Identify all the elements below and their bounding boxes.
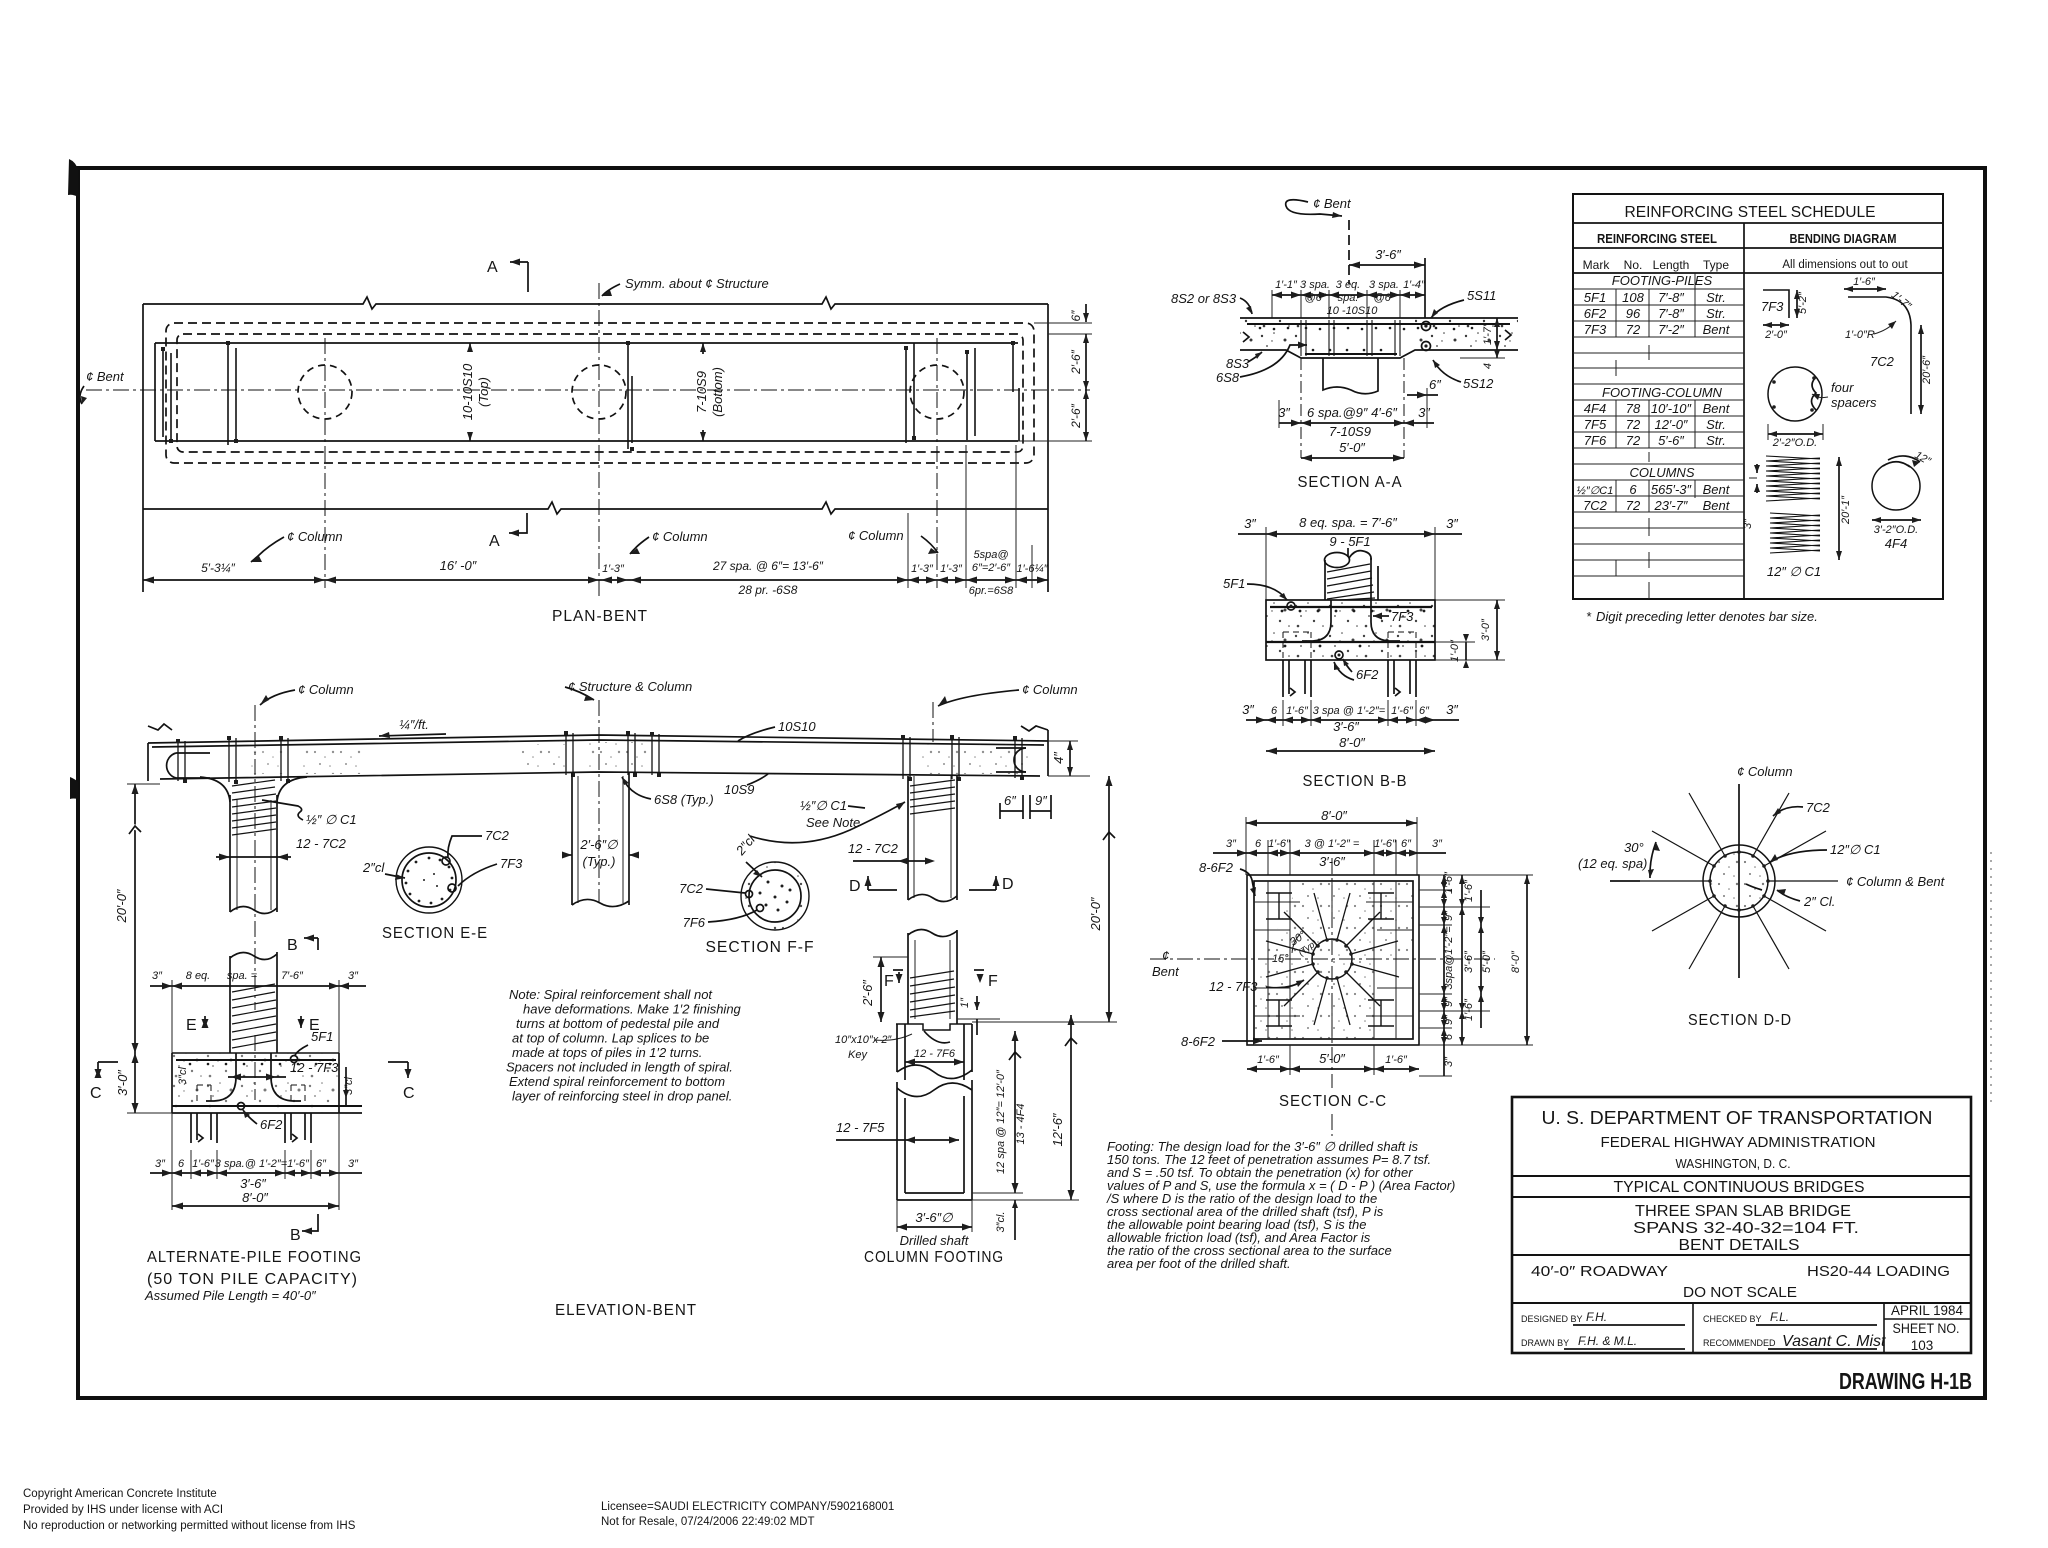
svg-text:3″: 3″	[155, 1158, 166, 1170]
bottom dims	[1289, 1045, 1291, 1075]
svg-text:¢: ¢	[1162, 948, 1169, 963]
svg-text:3″: 3″	[1418, 405, 1430, 420]
svg-text:10-10S10: 10-10S10	[460, 363, 475, 420]
svg-text:SECTION A-A: SECTION A-A	[1298, 474, 1403, 491]
squares	[1247, 875, 1419, 1045]
svg-text:3′-2″O.D.: 3′-2″O.D.	[1874, 524, 1918, 536]
svg-text:3″cl.: 3″cl.	[995, 1211, 1007, 1232]
top dim 8 eq spa	[150, 985, 366, 987]
svg-text:1′-6″: 1′-6″	[287, 1158, 310, 1170]
svg-text:7C2: 7C2	[485, 828, 510, 843]
right-end dimension stack 6" / 2'-6" / 2'-6"	[1034, 322, 1092, 324]
SECTION B-B	[1223, 515, 1505, 790]
title block	[1512, 1097, 1971, 1353]
svg-text:3″: 3″	[1226, 838, 1237, 850]
svg-text:6F2: 6F2	[1584, 306, 1607, 321]
svg-text:¢ Structure & Column: ¢ Structure & Column	[568, 679, 692, 694]
svg-text:3 spa.@ 1′-2″=: 3 spa.@ 1′-2″=	[215, 1158, 288, 1170]
right end	[1021, 726, 1048, 731]
svg-text:3 spa.: 3 spa.	[1369, 279, 1399, 291]
svg-text:¢ Bent: ¢ Bent	[1313, 196, 1352, 211]
svg-text:6: 6	[178, 1158, 185, 1170]
svg-text:(Top): (Top)	[476, 377, 491, 407]
svg-text:layer of reinforcing steel in: layer of reinforcing steel in drop panel…	[512, 1089, 732, 1104]
svg-text:½″ ∅ C1: ½″ ∅ C1	[306, 812, 357, 827]
right rotated dims	[1014, 1031, 1016, 1193]
sheet border frame	[68, 159, 1985, 1398]
svg-text:7C2: 7C2	[1806, 800, 1831, 815]
svg-text:9″: 9″	[1443, 996, 1455, 1007]
svg-text:1′-7″: 1′-7″	[1482, 322, 1494, 345]
svg-text:9″: 9″	[1035, 793, 1047, 808]
double dashed drop-panel outline	[166, 323, 1034, 463]
7F3 funnels	[206, 1053, 236, 1101]
svg-text:8′-0″: 8′-0″	[1321, 808, 1347, 823]
svg-text:1′-0″R: 1′-0″R	[1845, 329, 1875, 341]
svg-text:3′-0″: 3′-0″	[1480, 618, 1492, 641]
svg-text:at top of column. Lap splices: at top of column. Lap splices to be	[512, 1031, 709, 1046]
svg-text:Bent: Bent	[1152, 964, 1180, 979]
svg-text:3 spa.: 3 spa.	[1300, 279, 1330, 291]
centerlines	[1150, 958, 1495, 960]
B mark lower	[302, 1214, 318, 1231]
svg-text:3″: 3″	[1432, 838, 1443, 850]
svg-text:6S8: 6S8	[1216, 370, 1240, 385]
bottom dims	[1279, 422, 1434, 424]
svg-text:D: D	[1002, 876, 1015, 893]
svg-text:12′-0″: 12′-0″	[1654, 417, 1687, 432]
svg-text:2′-6″: 2′-6″	[1069, 349, 1083, 375]
svg-text:6: 6	[1255, 838, 1262, 850]
svg-text:3″: 3″	[152, 970, 163, 982]
right rotated dims	[1435, 599, 1505, 601]
svg-text:CHECKED BY: CHECKED BY	[1703, 1314, 1762, 1324]
svg-text:3 eq.: 3 eq.	[1336, 279, 1360, 291]
stipple patches in beam	[300, 748, 364, 774]
svg-text:½″∅C1: ½″∅C1	[1577, 485, 1614, 497]
svg-text:6″: 6″	[1419, 705, 1430, 717]
bending diagram: spiral coils	[1766, 456, 1820, 553]
SECTION F-F	[741, 862, 809, 930]
3'-0" left dim	[134, 1053, 136, 1113]
svg-text:7C2: 7C2	[1870, 354, 1895, 369]
svg-text:6F2: 6F2	[1356, 667, 1379, 682]
table data	[1577, 273, 1731, 513]
svg-text:Bent: Bent	[1703, 482, 1731, 497]
svg-text:20′-0″: 20′-0″	[114, 889, 129, 923]
svg-text:7F6: 7F6	[683, 915, 706, 930]
svg-text:(50 TON PILE CAPACITY): (50 TON PILE CAPACITY)	[147, 1271, 358, 1288]
SECTION E-E	[396, 847, 462, 913]
svg-text:F.L.: F.L.	[1770, 1310, 1789, 1324]
svg-text:4F4: 4F4	[1584, 401, 1606, 416]
centreline of bent	[86, 389, 1090, 391]
svg-text:Type: Type	[1703, 258, 1729, 272]
20'-0" left	[134, 784, 136, 1053]
svg-text:¢ Column: ¢ Column	[1022, 682, 1078, 697]
svg-text:1′-3″: 1′-3″	[602, 563, 625, 575]
svg-text:108: 108	[1622, 290, 1644, 305]
bottom dims	[150, 1172, 362, 1174]
column 3	[907, 776, 909, 900]
svg-text:5′-6″: 5′-6″	[1658, 433, 1684, 448]
svg-text:Str.: Str.	[1706, 433, 1726, 448]
svg-text:6″=2′-6″: 6″=2′-6″	[972, 562, 1011, 574]
pile dashed tops and piles	[1283, 632, 1416, 660]
svg-text:72: 72	[1626, 433, 1641, 448]
svg-text:1′-6″: 1′-6″	[1374, 838, 1397, 850]
svg-text:APRIL 1984: APRIL 1984	[1891, 1303, 1963, 1318]
svg-text:B: B	[290, 1227, 302, 1244]
svg-text:8′-0″: 8′-0″	[242, 1190, 268, 1205]
svg-text:1′-6″: 1′-6″	[1443, 871, 1455, 894]
svg-text:1′-6″: 1′-6″	[192, 1158, 215, 1170]
3'-6" dia	[896, 1200, 898, 1232]
svg-text:SECTION F-F: SECTION F-F	[706, 939, 815, 956]
svg-text:spa. =: spa. =	[227, 970, 258, 982]
Footing paragraph	[1106, 1139, 1455, 1271]
svg-text:10 -10S10: 10 -10S10	[1327, 305, 1379, 317]
svg-text:6: 6	[1443, 1033, 1455, 1040]
svg-text:COLUMNS: COLUMNS	[1629, 465, 1694, 480]
svg-text:FOOTING-COLUMN: FOOTING-COLUMN	[1602, 385, 1722, 400]
svg-text:Drilled shaft: Drilled shaft	[900, 1233, 970, 1248]
svg-text:PLAN-BENT: PLAN-BENT	[552, 608, 648, 625]
svg-text:9″: 9″	[1443, 1014, 1455, 1025]
svg-text:12 - 7F6: 12 - 7F6	[914, 1048, 956, 1060]
svg-text:2′-6″∅: 2′-6″∅	[579, 837, 618, 852]
svg-text:(Typ.): (Typ.)	[583, 854, 616, 869]
2'-6" dim	[880, 957, 882, 1022]
svg-text:U. S. DEPARTMENT OF TRANSPO: U. S. DEPARTMENT OF TRANSPORTATION	[1542, 1108, 1933, 1128]
svg-text:(Bottom): (Bottom)	[710, 367, 725, 417]
svg-text:565′-3″: 565′-3″	[1651, 482, 1692, 497]
svg-text:9″: 9″	[1443, 910, 1455, 921]
svg-text:2′-0″: 2′-0″	[1764, 329, 1788, 341]
svg-text:96: 96	[1626, 306, 1641, 321]
svg-text:1′-6″: 1′-6″	[1268, 838, 1291, 850]
svg-text:F: F	[884, 973, 895, 990]
svg-text:4″: 4″	[1051, 752, 1066, 764]
svg-text:HS20-44 LOADING: HS20-44 LOADING	[1807, 1263, 1950, 1280]
svg-text:7F3: 7F3	[1391, 609, 1414, 624]
svg-text:6″: 6″	[1429, 377, 1441, 392]
svg-text:3″: 3″	[348, 1158, 359, 1170]
svg-text:8-6F2: 8-6F2	[1181, 1034, 1216, 1049]
svg-text:Mark: Mark	[1583, 258, 1611, 272]
svg-text:27 spa. @ 6″= 13′-6″: 27 spa. @ 6″= 13′-6″	[712, 559, 824, 573]
stirrup ticks across beam	[178, 733, 1022, 782]
bending diagram: spacer circle	[1768, 367, 1822, 421]
svg-text:9 - 5F1: 9 - 5F1	[1329, 534, 1370, 549]
svg-text:3″: 3″	[1242, 702, 1254, 717]
svg-text:5F1: 5F1	[311, 1029, 333, 1044]
svg-text:7′-8″: 7′-8″	[1658, 290, 1684, 305]
svg-text:5′-0″: 5′-0″	[1339, 440, 1365, 455]
svg-text:3′-6″: 3′-6″	[1375, 247, 1401, 262]
svg-text:7F6: 7F6	[1584, 433, 1607, 448]
svg-text:16′ -0″: 16′ -0″	[440, 558, 477, 573]
svg-text:12′-6″: 12′-6″	[1050, 1113, 1065, 1146]
right rotated dims	[1496, 318, 1498, 350]
svg-text:SPANS 32-40-32=104 FT.: SPANS 32-40-32=104 FT.	[1633, 1220, 1859, 1237]
H piles	[1266, 893, 1394, 1026]
dashed extension lines below drop panel	[1300, 358, 1302, 458]
svg-text:3 spa @ 1′-2″=: 3 spa @ 1′-2″=	[1313, 705, 1386, 717]
svg-text:12 - 7F5: 12 - 7F5	[836, 1120, 885, 1135]
beam cap	[148, 735, 1048, 743]
svg-text:1′-6¼″: 1′-6¼″	[1016, 563, 1048, 575]
svg-text:REINFORCING STEEL: REINFORCING STEEL	[1597, 231, 1717, 246]
4" dim right end	[1069, 741, 1071, 776]
svg-text:2″ Cl.: 2″ Cl.	[1803, 894, 1835, 909]
svg-text:12 - 7F3: 12 - 7F3	[1209, 979, 1258, 994]
svg-text:area per foot of the dril: area per foot of the drilled shaft.	[1107, 1256, 1291, 1271]
svg-text:3″: 3″	[1446, 702, 1458, 717]
svg-text:See Note: See Note	[806, 815, 860, 830]
svg-text:20′-6″: 20′-6″	[1921, 355, 1933, 385]
svg-text:spacers: spacers	[1831, 395, 1877, 410]
svg-text:1′-6″: 1′-6″	[1391, 705, 1414, 717]
svg-text:6 spa.@9″ 4′-6″: 6 spa.@9″ 4′-6″	[1307, 405, 1397, 420]
svg-text:2′-2″O.D.: 2′-2″O.D.	[1772, 437, 1817, 449]
svg-text:¢ Column: ¢ Column	[298, 682, 354, 697]
svg-text:E: E	[186, 1017, 198, 1034]
svg-text:3″cl: 3″cl	[177, 1066, 189, 1085]
svg-text:5F1: 5F1	[1584, 290, 1606, 305]
svg-text:2′-6″: 2′-6″	[860, 980, 875, 1007]
svg-text:Digit preceding letter denot: Digit preceding letter denotes bar size.	[1596, 609, 1818, 624]
bottom dim rows	[1246, 719, 1459, 721]
break marks	[1243, 332, 1249, 342]
svg-text:5S11: 5S11	[1467, 288, 1496, 303]
svg-text:turns at bottom of pedestal pi: turns at bottom of pedestal pile and	[516, 1016, 720, 1031]
svg-text:30°: 30°	[1624, 840, 1644, 855]
svg-text:8′-0″: 8′-0″	[1339, 735, 1365, 750]
bending diagram: 7C2 hook bar	[1848, 297, 1911, 414]
svg-text:12″∅ C1: 12″∅ C1	[1830, 842, 1881, 857]
svg-text:3′-6″: 3′-6″	[1463, 950, 1475, 973]
svg-text:All dimensions out to out: All dimensions out to out	[1782, 259, 1908, 271]
PLAN-BENT view	[80, 259, 1092, 626]
svg-text:6pr.=6S8: 6pr.=6S8	[969, 585, 1014, 597]
7F3 funnels	[1302, 600, 1331, 641]
svg-text:No.: No.	[1624, 258, 1643, 272]
svg-text:7C2: 7C2	[679, 881, 704, 896]
right side dim stack	[1419, 875, 1533, 1076]
svg-text:6″: 6″	[1069, 310, 1083, 322]
column circles dashed	[298, 365, 352, 419]
svg-text:7F5: 7F5	[1584, 417, 1607, 432]
svg-text:3spa@1′-2″=: 3spa@1′-2″=	[1443, 926, 1455, 990]
svg-text:1′-6″: 1′-6″	[1463, 998, 1475, 1021]
svg-text:10S10: 10S10	[778, 719, 816, 734]
svg-text:1′-3″: 1′-3″	[940, 563, 963, 575]
partial column dividers	[1616, 273, 1695, 599]
svg-text:Key: Key	[848, 1049, 868, 1061]
svg-text:7′-8″: 7′-8″	[1658, 306, 1684, 321]
svg-text:@6″: @6″	[1304, 292, 1326, 304]
svg-text:2′-6″: 2′-6″	[1069, 403, 1083, 429]
svg-text:Licensee=SAUDI ELECTRICITY COM: Licensee=SAUDI ELECTRICITY COMPANY/59021…	[601, 1501, 894, 1513]
svg-text:Note: Spiral reinforcement sh: Note: Spiral reinforcement shall not	[509, 987, 713, 1002]
svg-text:BENDING DIAGRAM: BENDING DIAGRAM	[1790, 231, 1897, 246]
svg-text:4F4: 4F4	[1885, 536, 1907, 551]
svg-text:FOOTING-PILES: FOOTING-PILES	[1612, 273, 1713, 288]
svg-text:DESIGNED BY: DESIGNED BY	[1521, 1314, 1583, 1324]
svg-text:A: A	[487, 259, 499, 276]
svg-text:¢ Column: ¢ Column	[652, 529, 708, 544]
Note paragraph	[506, 987, 742, 1104]
upper bar-spacing dims	[1272, 294, 1425, 296]
svg-text:3′-6″: 3′-6″	[240, 1176, 266, 1191]
column 1	[200, 777, 230, 802]
svg-text:1′-6″: 1′-6″	[1385, 1054, 1408, 1066]
svg-text:6S8 (Typ.): 6S8 (Typ.)	[654, 792, 714, 807]
svg-text:SECTION E-E: SECTION E-E	[382, 925, 488, 942]
3"cl	[1014, 1200, 1016, 1240]
center circle and radiating bars	[1312, 939, 1352, 979]
svg-text:1′-6″: 1′-6″	[1257, 1054, 1280, 1066]
COLUMN FOOTING	[835, 929, 1079, 1266]
svg-text:23′-7″: 23′-7″	[1653, 498, 1687, 513]
svg-text:6″: 6″	[316, 1158, 327, 1170]
svg-text:Symm. about ¢ Structure: Symm. about ¢ Structure	[625, 276, 769, 291]
svg-text:Bent: Bent	[1703, 322, 1731, 337]
svg-text:8 eq. spa. = 7′-6″: 8 eq. spa. = 7′-6″	[1299, 515, 1397, 530]
svg-text:@6″: @6″	[1373, 292, 1395, 304]
svg-text:7′-6″: 7′-6″	[281, 970, 304, 982]
svg-text:20′-1″: 20′-1″	[1840, 495, 1852, 525]
svg-text:5′-2″: 5′-2″	[1797, 291, 1809, 314]
column below	[1323, 358, 1378, 394]
svg-text:Copyright American Concrete In: Copyright American Concrete Institute	[23, 1488, 217, 1500]
svg-text:7C2: 7C2	[1583, 498, 1608, 513]
footing body	[172, 1053, 339, 1113]
svg-text:1″: 1″	[959, 997, 971, 1008]
svg-text:¢ Column & Bent: ¢ Column & Bent	[1846, 874, 1946, 889]
bottom dimension line	[143, 579, 1048, 581]
svg-text:COLUMN FOOTING: COLUMN FOOTING	[864, 1249, 1004, 1266]
shaft upper segment	[896, 1024, 898, 1072]
svg-text:RECOMMENDED: RECOMMENDED	[1703, 1338, 1776, 1348]
ALTERNATE-PILE FOOTING	[90, 935, 416, 1304]
C marks	[98, 1061, 118, 1063]
svg-text:12 - 7F3: 12 - 7F3	[290, 1060, 339, 1075]
ELEVATION-BENT	[114, 679, 1117, 1319]
sub dims	[1213, 852, 1446, 854]
svg-text:7F3: 7F3	[1584, 322, 1607, 337]
svg-text:8 eq.: 8 eq.	[186, 970, 210, 982]
svg-text:Bent: Bent	[1703, 498, 1731, 513]
svg-text:Str.: Str.	[1706, 290, 1726, 305]
svg-text:Bent: Bent	[1703, 401, 1731, 416]
svg-text:1′-6″: 1′-6″	[1286, 705, 1309, 717]
svg-text:12 spa @ 12″= 12′-0″: 12 spa @ 12″= 12′-0″	[995, 1069, 1007, 1174]
footer small print	[23, 1488, 894, 1532]
svg-text:DRAWING H-1B: DRAWING H-1B	[1839, 1368, 1972, 1394]
svg-text:¢ Bent: ¢ Bent	[86, 369, 125, 384]
svg-text:1′-1″: 1′-1″	[1275, 279, 1298, 291]
svg-text:12 - 7C2: 12 - 7C2	[296, 836, 347, 851]
svg-text:20′-0″: 20′-0″	[1088, 897, 1103, 931]
svg-text:¢ Column: ¢ Column	[1737, 764, 1793, 779]
svg-text:1′-0″: 1′-0″	[1449, 639, 1461, 662]
shaft lower segment	[896, 1082, 898, 1200]
svg-text:8′-0″: 8′-0″	[1510, 950, 1522, 973]
svg-text:3″: 3″	[1443, 1056, 1455, 1067]
svg-text:(12 eq. spa): (12 eq. spa)	[1578, 856, 1647, 871]
svg-text:THREE SPAN SLAB BRIDGE: THREE SPAN SLAB BRIDGE	[1635, 1203, 1851, 1220]
slab band	[1240, 318, 1301, 350]
pedestal with spiral	[1347, 548, 1349, 557]
svg-text:7-10S9: 7-10S9	[1329, 424, 1371, 439]
svg-text:5′-3¼″: 5′-3¼″	[201, 561, 236, 575]
svg-text:7-10S9: 7-10S9	[694, 371, 709, 413]
svg-text:6: 6	[1271, 705, 1278, 717]
svg-text:WASHINGTON, D. C.: WASHINGTON, D. C.	[1676, 1157, 1791, 1171]
svg-text:3 @ 1′-2″ =: 3 @ 1′-2″ =	[1305, 838, 1360, 850]
svg-text:Extend spiral reinforcement to: Extend spiral reinforcement to bottom	[509, 1074, 725, 1089]
svg-text:1′-4″: 1′-4″	[1403, 279, 1426, 291]
svg-text:6″: 6″	[1004, 793, 1016, 808]
svg-text:DRAWN BY: DRAWN BY	[1521, 1338, 1569, 1348]
svg-text:5S12: 5S12	[1463, 376, 1494, 391]
svg-text:72: 72	[1626, 498, 1641, 513]
svg-text:BENT DETAILS: BENT DETAILS	[1679, 1237, 1800, 1254]
svg-text:5spa@: 5spa@	[973, 549, 1008, 561]
REINFORCING STEEL SCHEDULE table	[1573, 194, 1943, 624]
interior rebar grid	[1254, 881, 1413, 1039]
svg-text:ELEVATION-BENT: ELEVATION-BENT	[555, 1302, 697, 1319]
svg-text:Length: Length	[1653, 258, 1690, 272]
svg-text:12″ ∅ C1: 12″ ∅ C1	[1767, 564, 1821, 579]
svg-text:spa.: spa.	[1338, 292, 1359, 304]
svg-text:SHEET NO.: SHEET NO.	[1893, 1321, 1960, 1336]
column 2	[571, 772, 573, 905]
svg-text:6: 6	[1629, 482, 1637, 497]
svg-text:DO NOT SCALE: DO NOT SCALE	[1683, 1284, 1797, 1301]
svg-text:F.H.: F.H.	[1586, 1310, 1607, 1324]
SECTION A-A	[1171, 196, 1518, 491]
svg-text:3″: 3″	[1446, 516, 1458, 531]
svg-text:Spacers not included in length: Spacers not included in length of spiral…	[506, 1060, 733, 1075]
svg-text:Assumed Pile Length = 40′-0″: Assumed Pile Length = 40′-0″	[144, 1288, 316, 1303]
svg-text:½″∅ C1: ½″∅ C1	[800, 798, 847, 813]
svg-text:103: 103	[1911, 1338, 1934, 1353]
svg-text:have deformations. Make 1′2 f: have deformations. Make 1′2 finishing	[523, 1002, 742, 1017]
svg-text:7F3: 7F3	[500, 856, 523, 871]
svg-text:F: F	[988, 973, 999, 990]
svg-text:6″: 6″	[1401, 838, 1412, 850]
svg-text:SECTION C-C: SECTION C-C	[1279, 1093, 1387, 1110]
SECTION C-C	[1150, 808, 1533, 1136]
svg-text:No reproduction or networking: No reproduction or networking permitted …	[23, 1520, 356, 1532]
svg-text:7′-2″: 7′-2″	[1658, 322, 1684, 337]
svg-text:1′-3″: 1′-3″	[911, 563, 934, 575]
svg-text:6F2: 6F2	[260, 1117, 283, 1132]
svg-text:FEDERAL HIGHWAY ADMINISTRATI: FEDERAL HIGHWAY ADMINISTRATION	[1601, 1134, 1876, 1151]
bending diagram: 4F4 circle	[1872, 462, 1920, 510]
svg-text:SECTION D-D: SECTION D-D	[1688, 1012, 1792, 1029]
svg-text:Provided by IHS under license: Provided by IHS under license with ACI	[23, 1504, 223, 1516]
svg-text:four: four	[1831, 380, 1854, 395]
svg-text:3″: 3″	[1278, 405, 1290, 420]
svg-text:¢ Column: ¢ Column	[848, 528, 904, 543]
svg-text:ALTERNATE-PILE FOOTING: ALTERNATE-PILE FOOTING	[147, 1249, 362, 1266]
svg-text:12 - 7C2: 12 - 7C2	[848, 841, 899, 856]
row rules	[1573, 289, 1744, 576]
